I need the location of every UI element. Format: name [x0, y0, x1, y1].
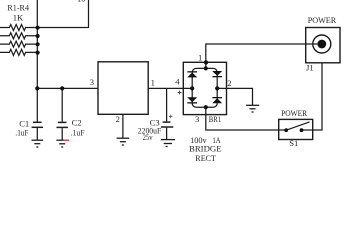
diode BR1 top-left: [187, 71, 197, 77]
svg-text:R1-R4: R1-R4: [7, 2, 29, 12]
resistor R4: [0, 49, 37, 55]
wire bus vertical: [36, 0, 38, 88]
wire to off-page (To): [37, 0, 88, 28]
node BR1 top edge: [204, 60, 208, 64]
wire BR1 pin1 to J1: [206, 44, 318, 68]
wire rail left to U1 pin3: [37, 87, 98, 89]
svg-text:BR1: BR1: [209, 114, 221, 124]
wire BR1 pin2 to ground: [217, 88, 252, 105]
label + (BR1 pin4): [178, 91, 182, 95]
svg-text:25v: 25v: [143, 132, 154, 142]
svg-text:S1: S1: [289, 138, 298, 148]
svg-text:1: 1: [198, 52, 202, 62]
diode BR1 top-right: [212, 71, 222, 77]
svg-text:3: 3: [90, 77, 94, 87]
svg-text:POWER: POWER: [281, 108, 307, 118]
wire U1 pin2: [122, 114, 124, 138]
connector J1 center pin: [317, 40, 326, 49]
node BR1 right: [215, 86, 219, 90]
node BR1 left: [190, 86, 194, 90]
diode BR1 bottom-left: [187, 97, 197, 103]
resistor R1: [0, 25, 37, 31]
svg-text:2: 2: [116, 114, 120, 124]
connector J1 ring: [313, 35, 331, 53]
bridge BR1 inner loop: [192, 68, 217, 107]
bridge BR1 box: [183, 62, 226, 114]
op-amp U1 regulator box: [98, 62, 148, 115]
svg-text:2: 2: [227, 78, 231, 88]
svg-text:J1: J1: [306, 62, 314, 72]
node R2-bus junction: [36, 34, 40, 38]
svg-text:POWER: POWER: [308, 15, 337, 25]
ground (C3): [161, 140, 175, 147]
svg-text:1: 1: [151, 77, 155, 87]
resistor R3: [0, 41, 37, 47]
wire S1 right contact: [302, 129, 313, 131]
node C1 rail junction: [35, 86, 39, 90]
node BR1 top: [204, 66, 208, 70]
ground (U1 pin2): [117, 138, 130, 145]
switch S1 lever: [286, 122, 309, 130]
ground (C2): [56, 140, 69, 147]
node R4-bus junction: [36, 51, 40, 55]
switch S1 left contact: [284, 128, 288, 132]
switch S1 box: [279, 119, 313, 139]
capacitor C3: [161, 88, 173, 139]
node R3-bus junction: [36, 42, 40, 46]
diode BR1 bottom-right: [212, 97, 222, 103]
label + (C3 polarity): [169, 115, 172, 118]
switch S1 right contact: [300, 128, 304, 132]
wire J1 sleeve to S1: [313, 63, 322, 130]
svg-text:1K: 1K: [13, 12, 24, 22]
ground (BR1 pin2): [246, 105, 259, 112]
svg-text:.1uF: .1uF: [15, 128, 28, 138]
svg-text:RECT: RECT: [195, 153, 216, 163]
capacitor C2: [57, 88, 68, 140]
wire rail U1 pin1 to BR1 pin4: [148, 87, 192, 89]
svg-text:C2: C2: [72, 117, 82, 127]
resistor R2: [0, 33, 37, 39]
svg-text:4: 4: [175, 76, 180, 86]
node BR1 bottom: [204, 105, 208, 109]
wire BR1 pin3 to S1: [206, 107, 286, 130]
ground (C1): [32, 140, 44, 147]
capacitor C1: [32, 88, 43, 140]
svg-text:3: 3: [195, 114, 199, 124]
svg-text:To: To: [77, 0, 86, 4]
node R1-bus junction: [36, 26, 40, 30]
connector J1 box: [306, 28, 340, 63]
svg-text:.1uF: .1uF: [71, 127, 85, 137]
node C2 rail junction: [60, 86, 64, 90]
